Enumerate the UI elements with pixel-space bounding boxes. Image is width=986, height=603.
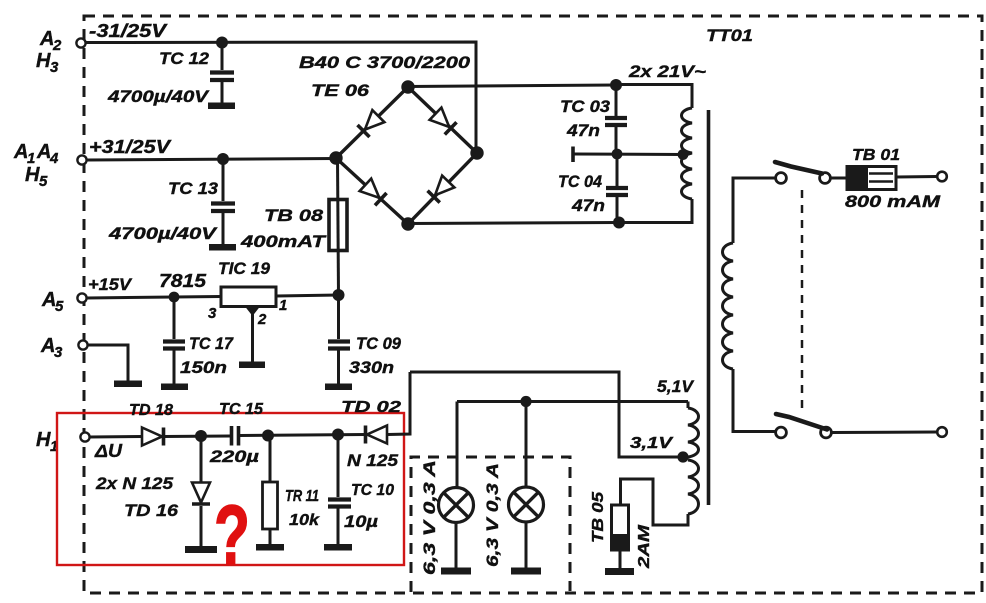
annotation red box (57, 413, 404, 565)
svg-text:4700µ/40V: 4700µ/40V (108, 224, 218, 243)
wire +31/25V rail (87, 159, 337, 161)
svg-text:5: 5 (55, 298, 64, 315)
node bridge right corner (470, 146, 483, 159)
node bridge bottom corner (401, 217, 414, 230)
wire TD02 output up (388, 372, 410, 435)
svg-text:7815: 7815 (159, 271, 207, 291)
diode upper-right of bridge (430, 108, 457, 135)
svg-text:TC 09: TC 09 (356, 334, 402, 353)
capacitor TC10 (337, 435, 340, 498)
ground TD16 (185, 546, 217, 553)
winding primary (733, 178, 775, 243)
terminal mains L (937, 172, 947, 182)
svg-text:47n: 47n (566, 121, 600, 140)
diode lower-left of bridge (360, 179, 387, 206)
svg-text:2x 21V~: 2x 21V~ (628, 62, 706, 81)
ground TB05 (605, 568, 634, 575)
terminal A3 (78, 340, 87, 349)
capacitor TC15 (230, 426, 234, 446)
wire bridge bottom to transformer (408, 223, 619, 224)
svg-text:3: 3 (50, 59, 59, 76)
diode TD02 (366, 426, 388, 444)
svg-text:TIC 19: TIC 19 (218, 259, 271, 278)
diode TD16 (200, 436, 203, 483)
svg-text:TC 03: TC 03 (560, 97, 611, 116)
svg-text:6,3 V 0,3 A: 6,3 V 0,3 A (484, 463, 502, 567)
wire switch to output terminal (832, 431, 938, 435)
diode TD18 (142, 428, 164, 446)
ground TC09 (325, 384, 352, 391)
terminal H1 (80, 432, 89, 441)
svg-text:H: H (36, 50, 51, 72)
regulator TIC19 body (221, 287, 276, 307)
lamp sub-box dashed (411, 457, 570, 592)
wire 5,1V bottom to fuse TB05 (621, 479, 689, 525)
node stub end bar (571, 147, 575, 163)
fuse TB01 (847, 167, 896, 190)
capacitor TC04 (616, 154, 619, 186)
lamp EL1 6,3V 0,3A (439, 488, 474, 523)
svg-text:+31/25V: +31/25V (89, 137, 172, 157)
node TC12 top junction (216, 37, 228, 49)
svg-text:TD 16: TD 16 (124, 501, 179, 520)
wire H1 rail (90, 435, 143, 439)
node TD16 junction (195, 430, 207, 442)
svg-text:2: 2 (52, 37, 62, 54)
terminal A2 (76, 38, 85, 47)
node secondary bottom junction (613, 217, 625, 229)
SECTION: top rails (86, 21, 477, 251)
svg-text:TD 02: TD 02 (341, 399, 401, 416)
node TR11 junction (262, 430, 274, 442)
SECTION: lamps (411, 396, 688, 592)
SECTION: switches (775, 147, 947, 438)
SECTION: redbox (57, 372, 410, 583)
wire TD18 to TC15 (164, 435, 230, 439)
resistor TR11 (269, 436, 272, 483)
switch S1a upper pole (776, 173, 787, 184)
transformer core (707, 110, 711, 505)
winding 2x21V secondary (616, 85, 692, 109)
svg-text:47n: 47n (571, 196, 605, 215)
svg-text:800 mAM: 800 mAM (845, 192, 941, 211)
node lamp2 junction (520, 396, 531, 407)
svg-text:TD 18: TD 18 (129, 402, 173, 419)
svg-text:5,1V: 5,1V (657, 377, 695, 396)
svg-text:TB 05: TB 05 (590, 491, 607, 543)
wire fuse to output terminal (896, 175, 937, 179)
capacitor TC17 (173, 297, 176, 339)
wire 5,1V lamp feed (457, 400, 688, 403)
svg-text:4700µ/40V: 4700µ/40V (107, 87, 210, 106)
capacitor TC09 (337, 295, 340, 339)
wire +15V rail (87, 297, 222, 299)
ground TC12 (208, 103, 235, 110)
capacitor TC03 (615, 85, 618, 116)
SECTION: bridge (240, 53, 619, 295)
ground TC13 (209, 244, 236, 251)
ground TR11 (256, 544, 284, 551)
ground regulator pin2 (239, 362, 265, 369)
svg-text:-31/25V: -31/25V (89, 21, 168, 41)
node TC17 junction (169, 292, 180, 303)
svg-text:TC 13: TC 13 (168, 179, 219, 198)
SECTION: left terminals (13, 28, 90, 455)
bridge diamond wires (336, 87, 477, 224)
svg-text:ΔU: ΔU (94, 441, 123, 461)
ground lamp EL2 (511, 568, 541, 575)
fuse TB05 (612, 505, 629, 550)
wire A3 to ground (88, 345, 129, 381)
svg-text:330n: 330n (349, 358, 394, 377)
ground A3 (114, 381, 142, 388)
SECTION: regulator row (87, 259, 402, 390)
node TC10 junction (332, 429, 344, 441)
svg-text:TR 11: TR 11 (285, 488, 319, 505)
terminal A1 A4 (77, 155, 86, 164)
node regulator output junction (333, 289, 345, 301)
node winding center tap dot (678, 149, 689, 160)
pin 2 ground lead of regulator (245, 307, 260, 317)
svg-text:6,3 V 0,3 A: 6,3 V 0,3 A (421, 460, 439, 575)
wire center tap stub (574, 153, 683, 157)
svg-text:+15V: +15V (88, 275, 133, 294)
terminal A5 (77, 293, 86, 302)
svg-text:TC 10: TC 10 (351, 482, 394, 499)
wire to fuse TB01 (831, 177, 848, 180)
capacitor TC12 (221, 42, 224, 70)
svg-text:220µ: 220µ (209, 447, 260, 466)
svg-text:B40 C 3700/2200: B40 C 3700/2200 (299, 53, 471, 72)
wire regulator output to TC09 node (276, 295, 339, 296)
ground TC10 (324, 544, 352, 551)
node bridge top corner (401, 80, 414, 93)
svg-text:150n: 150n (180, 358, 227, 377)
svg-text:TE 06: TE 06 (311, 81, 370, 100)
svg-text:N 125: N 125 (347, 451, 399, 470)
svg-text:TC 04: TC 04 (558, 172, 603, 191)
terminal mains N (937, 427, 947, 437)
svg-text:TB 01: TB 01 (852, 147, 900, 164)
svg-text:3: 3 (54, 344, 63, 361)
diode upper-left of bridge (358, 110, 385, 137)
wire TC15 to TD02 (240, 435, 366, 436)
switch S1b lower pole (776, 427, 787, 438)
wire bridge top to transformer (408, 85, 616, 87)
svg-text:H: H (36, 429, 51, 451)
ground TC17 (161, 384, 188, 391)
switch gang dashed link (801, 190, 804, 411)
node secondary top junction (610, 79, 622, 91)
svg-text:4: 4 (49, 150, 59, 167)
svg-text:TT01: TT01 (706, 26, 753, 45)
annotation red question mark (214, 489, 250, 583)
svg-text:10k: 10k (289, 512, 320, 529)
svg-text:?: ? (214, 489, 250, 583)
svg-text:2x N 125: 2x N 125 (95, 474, 174, 493)
svg-text:10µ: 10µ (344, 512, 378, 531)
lamp EL2 6,3V 0,3A (509, 487, 544, 522)
ground lamp EL1 (441, 568, 471, 575)
wire -31/25V rail (86, 42, 477, 154)
diode lower-right of bridge (428, 176, 455, 203)
svg-text:3,1V: 3,1V (630, 435, 674, 452)
fuse TB08 (338, 158, 339, 295)
svg-text:TB 08: TB 08 (264, 206, 324, 225)
node center tap junction (612, 149, 623, 160)
svg-text:3: 3 (208, 305, 217, 322)
node 3,1V tap (677, 451, 688, 462)
node bridge left corner (329, 151, 342, 164)
svg-text:2: 2 (257, 311, 267, 328)
svg-text:2AM: 2AM (636, 524, 653, 569)
node TC13 top junction (217, 153, 229, 165)
wire 3,1V tap to rectifier wire (410, 372, 683, 457)
svg-text:TC 15: TC 15 (219, 401, 264, 418)
svg-text:TC 17: TC 17 (189, 334, 234, 353)
SECTION: transformer (410, 26, 776, 575)
capacitor TC13 (222, 159, 225, 201)
svg-text:1: 1 (279, 297, 287, 314)
svg-text:TC 12: TC 12 (159, 49, 210, 68)
svg-text:5: 5 (39, 173, 48, 190)
svg-text:400mAT: 400mAT (240, 232, 327, 251)
svg-text:H: H (25, 164, 40, 186)
